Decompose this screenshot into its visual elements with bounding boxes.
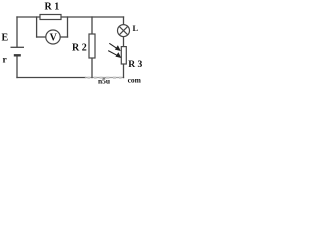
svg-text:com: com <box>128 75 142 84</box>
wire right vertical lower <box>123 64 125 78</box>
wire top right segment <box>61 16 124 18</box>
wire bottom right faint segment <box>86 77 124 79</box>
resistor R1 <box>40 15 61 20</box>
wire voltmeter right vertical <box>67 17 69 37</box>
svg-text:R 2: R 2 <box>72 43 87 54</box>
wire top left segment <box>17 16 40 18</box>
resistor R2 <box>89 34 95 58</box>
svg-text:E: E <box>2 33 9 44</box>
wire R2 branch lower <box>91 58 93 78</box>
battery E long plate <box>11 46 25 48</box>
svg-text:R 1: R 1 <box>45 2 60 13</box>
svg-text:R 3: R 3 <box>128 59 142 70</box>
wire R2 branch upper <box>91 17 93 34</box>
lamp X cross <box>119 26 127 34</box>
voltmeter U1 <box>46 30 60 44</box>
lamp L <box>118 25 130 37</box>
svg-text:n5u: n5u <box>98 77 110 86</box>
wire voltmeter left stub <box>37 36 46 38</box>
light arrow 1 <box>109 43 121 51</box>
wire left vertical lower <box>16 55 18 77</box>
wire right vertical middle <box>123 37 125 47</box>
battery E short plate <box>14 54 21 56</box>
wire left vertical upper <box>16 17 18 47</box>
svg-text:L: L <box>133 24 139 33</box>
wire right vertical upper <box>123 17 125 25</box>
watermark lightening dashes on bottom wire <box>88 77 122 79</box>
photoresistor R3 <box>121 47 126 64</box>
wire voltmeter right stub <box>60 36 68 38</box>
wire bottom left segment <box>17 77 86 79</box>
svg-text:V: V <box>50 33 58 44</box>
wire voltmeter left vertical <box>36 17 38 37</box>
light arrow 2 <box>108 51 121 58</box>
